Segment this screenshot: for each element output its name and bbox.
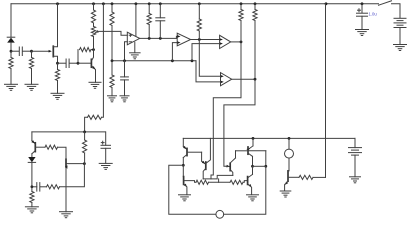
ground R3	[51, 92, 64, 94]
capacitor C6	[40, 186, 46, 188]
ground Q7	[247, 194, 259, 196]
wire Q5 diode connection	[248, 150, 265, 152]
ground B2	[350, 176, 361, 178]
resistor R9 pullup	[198, 4, 200, 19]
node BJT base	[77, 62, 80, 65]
wire U2 output	[191, 39, 220, 41]
node core rail x289	[288, 137, 291, 140]
resistor R2	[31, 51, 33, 57]
label U1 plus	[129, 34, 131, 36]
wire D2 to node	[31, 162, 33, 186]
ground Q8	[280, 190, 291, 192]
buffer U3	[220, 35, 231, 48]
resistor R11	[254, 4, 256, 10]
resistor R10	[240, 4, 242, 10]
node Q1 collector	[92, 48, 95, 51]
wire base line center	[209, 181, 231, 183]
transistor Q7 lower-right	[252, 166, 254, 174]
wire U3 output to drive column	[231, 41, 241, 43]
transistor Q6 lower-left	[182, 165, 184, 176]
wire U1 Vminus to ground	[134, 42, 136, 52]
transistor Q4 center-right	[235, 151, 237, 158]
ground R1	[5, 83, 18, 85]
wire rail to diode D1	[10, 4, 12, 37]
wire R14 to rail drop	[313, 176, 326, 178]
node U3 out	[240, 41, 243, 44]
wire U2 lower input from mid rail	[172, 43, 177, 61]
resistor R19 mid-rail	[111, 61, 113, 75]
node right collectors	[251, 165, 254, 168]
wire drive column B	[224, 79, 255, 166]
wire U3 lower input	[192, 44, 220, 61]
transistor Q10	[65, 159, 67, 167]
ground C9	[356, 29, 369, 31]
ground R19	[108, 95, 117, 97]
transistor Q3 center-left	[201, 152, 203, 161]
node U2 out	[198, 38, 201, 41]
capacitor C3	[159, 4, 161, 18]
capacitor C5	[105, 132, 107, 145]
node right loop	[264, 165, 267, 168]
wire core rail corner to battery B2	[354, 138, 356, 147]
label U1 minus	[129, 41, 131, 43]
node output R8	[148, 37, 151, 40]
wire U1 output	[140, 37, 177, 39]
resistor R5 upper of pot chain	[93, 4, 95, 10]
wire rail drop x326	[325, 4, 327, 178]
wire rail drop x103	[102, 4, 104, 118]
wire R15 to Q10 collector	[58, 147, 67, 159]
wire U1 Vplus from rail	[135, 4, 137, 37]
potentiometer VR1	[91, 27, 95, 37]
wire D1 to input node	[10, 43, 12, 52]
node mid rail x112	[111, 59, 114, 62]
ground battery	[394, 44, 407, 46]
resistor R4 feedback	[80, 48, 92, 52]
capacitor C1	[11, 50, 19, 52]
capacitor C9 electrolytic 1.0u	[361, 4, 363, 13]
wire center emitter bus	[203, 175, 233, 179]
wire battery to ground	[399, 28, 401, 45]
node mid rail x124	[123, 59, 126, 62]
diode D2	[28, 157, 35, 162]
wire drive column A	[211, 42, 241, 179]
node output C3	[159, 37, 162, 40]
current probe CS2	[216, 210, 224, 218]
node mid rail x192	[191, 59, 194, 62]
ground C4	[120, 95, 129, 97]
wire base node up	[77, 50, 79, 64]
wire U4 output	[232, 78, 255, 80]
wire B2 to ground	[354, 155, 356, 177]
wire VR1 wiper to op-amp +	[95, 30, 99, 33]
diode D1 varactor	[7, 36, 15, 38]
op-amp U1	[127, 32, 139, 45]
wire cross-couple left loop	[169, 165, 216, 214]
resistor R16	[47, 185, 60, 189]
node bias base	[83, 162, 86, 165]
wire switch to battery	[392, 4, 401, 18]
transistor Q2 upper-left PNP	[182, 138, 184, 146]
wire top supply rail	[11, 3, 379, 5]
current source CS1	[288, 138, 290, 149]
transistor Q8 output	[288, 158, 290, 170]
wire C9 to ground	[361, 16, 363, 29]
wire to JFET gate	[32, 50, 50, 52]
resistor R15 base	[45, 145, 58, 149]
wire U1 minus input	[125, 42, 128, 61]
switch SW1	[379, 1, 392, 5]
ground U1	[130, 52, 141, 54]
transistor J1 JFET	[49, 50, 52, 53]
node left collectors	[182, 164, 185, 167]
resistor R7 from rail x112	[111, 4, 113, 12]
node mid rail x172	[171, 59, 174, 62]
resistor R1	[10, 51, 12, 57]
svg-text:1.0u: 1.0u	[369, 12, 378, 17]
resistor R17 vertical	[84, 132, 86, 140]
wire U4 upper input	[199, 40, 220, 77]
ground R18	[25, 206, 38, 208]
transistor Q1	[78, 62, 91, 64]
ground Q10 emitter	[60, 211, 73, 213]
ground Q6	[179, 194, 191, 196]
ground R2	[25, 83, 38, 85]
wire to Q7 base	[243, 181, 247, 183]
capacitor C2 coupling	[58, 62, 66, 64]
resistor R3 source	[57, 63, 59, 69]
node JFET source	[56, 62, 59, 65]
wire U4 lower input	[196, 61, 221, 82]
wire core supply rail	[183, 137, 355, 139]
transistor Q5 upper-right PNP	[252, 138, 254, 146]
node gate line	[30, 50, 33, 53]
node U4 out	[254, 78, 257, 81]
transistor Q9 PNP	[31, 132, 33, 141]
resistor R12 base left	[196, 180, 209, 184]
ground Q1 emitter	[89, 81, 101, 83]
resistor R6	[88, 115, 102, 119]
resistor R8	[148, 4, 150, 14]
node bias bottom	[31, 185, 34, 188]
resistor R18	[31, 187, 33, 192]
node input left	[10, 50, 13, 53]
battery BT1	[394, 17, 406, 19]
node bias x84	[83, 131, 86, 134]
wire base node down	[60, 164, 85, 187]
capacitor C4	[124, 61, 126, 77]
buffer U2	[175, 36, 178, 38]
node top-rail junction dots	[56, 2, 59, 5]
wire cross-couple right loop	[224, 166, 266, 214]
node core rail x253	[252, 137, 255, 140]
resistor R13 base right	[230, 180, 243, 184]
ground C5	[99, 162, 112, 164]
battery B2	[349, 147, 362, 149]
buffer U4	[221, 73, 232, 86]
resistor R14	[299, 175, 313, 179]
wire bias top line	[32, 131, 106, 133]
wire mid feedback rail	[112, 60, 196, 62]
